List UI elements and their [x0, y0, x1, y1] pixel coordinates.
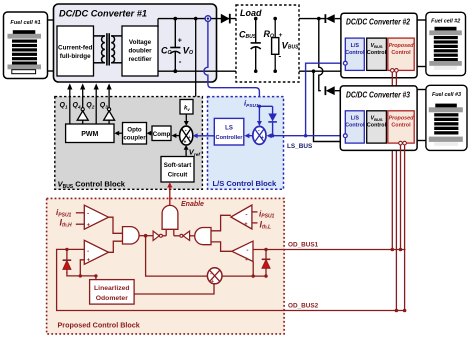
svg-text:Control: Control	[367, 123, 387, 129]
AND gate G2 (left-facing)	[195, 228, 211, 245]
Vbus control sub-block U3	[367, 111, 387, 143]
arrow comp to opto	[147, 131, 152, 136]
transformer T1	[94, 33, 123, 65]
arrow iPSU1 into summing junction X2	[257, 105, 262, 126]
L/S control sub-block U3	[343, 111, 364, 143]
summing junction X1	[180, 126, 193, 145]
wire LS_BUS	[273, 135, 344, 137]
diode D5 right (red)	[262, 250, 271, 277]
svg-text:Opto: Opto	[127, 127, 142, 134]
wire OD_BUS1	[253, 249, 406, 251]
svg-text:coupler: coupler	[123, 135, 146, 142]
diode D3 converter 3 output	[325, 86, 340, 95]
linearized odometer block	[90, 280, 135, 305]
wire odometer out to X3	[134, 284, 214, 294]
arrow X1 to comp	[171, 133, 179, 138]
wire fuel cell FC1 to converter 1 lower	[48, 70, 54, 72]
wire G1 node down to multiplier	[146, 236, 208, 276]
node OD_BUS1 diode	[264, 248, 267, 251]
wire odometer input	[95, 276, 97, 280]
svg-text:Control: Control	[345, 123, 365, 129]
gain block kv	[180, 100, 193, 115]
node LS bus diode junction	[271, 134, 274, 137]
diode D2 converter 2 output	[325, 14, 341, 23]
svg-text:-: -	[278, 52, 281, 61]
node lower-left comparator minus	[65, 248, 68, 251]
svg-text:+: +	[279, 32, 283, 39]
svg-text:-: -	[179, 57, 182, 66]
fuel cell FC3	[417, 85, 467, 150]
wire blue current sense down with hop	[204, 21, 260, 105]
wire enable G3 to soft-start	[167, 182, 172, 205]
svg-text:Odometer: Odometer	[96, 295, 128, 302]
node diode D5 bottom	[264, 274, 267, 277]
node OD_BUS2 junction U3	[403, 309, 407, 313]
arrow kv to X1	[184, 114, 189, 126]
svg-text:-: -	[87, 210, 89, 217]
soft-start circuit block	[161, 157, 194, 183]
fuel cell FC1	[4, 12, 48, 79]
diode D4 (blue) to LS bus	[259, 106, 277, 135]
wire A2 out to AND1	[109, 241, 123, 252]
capacitor Cbus	[239, 17, 261, 73]
LS controller block	[214, 118, 244, 145]
svg-text:-: -	[245, 212, 247, 219]
svg-text:kv: kv	[184, 106, 190, 112]
wire converter 3 return	[314, 71, 341, 141]
node OD_BUS1 junction U3	[399, 248, 403, 252]
wire A3 out to G2	[211, 215, 231, 231]
svg-text:+: +	[188, 135, 191, 141]
svg-text:OD_BUS1: OD_BUS1	[288, 242, 319, 249]
svg-text:Load: Load	[240, 8, 262, 18]
wire G1 output	[139, 235, 153, 237]
svg-text:VBUS: VBUS	[370, 116, 382, 122]
svg-text:+: +	[178, 38, 182, 45]
svg-text:-: -	[87, 248, 89, 255]
node odometer input	[94, 274, 97, 277]
node G1 output	[144, 234, 148, 238]
arrow LS controller to X1 (blue)	[193, 133, 215, 138]
arrow opto to PWM	[114, 131, 122, 136]
wire fuel cell FC1 to converter 1	[48, 19, 54, 21]
wire top rail converter 1 to load	[158, 18, 325, 20]
multiplier X3	[207, 268, 222, 285]
capacitor Co	[161, 17, 193, 73]
svg-text:Voltage: Voltage	[129, 39, 152, 46]
svg-text:-: -	[185, 128, 187, 134]
node multiplier out stub	[252, 274, 255, 277]
svg-text:-: -	[246, 247, 248, 254]
current-fed full-bridge block	[57, 26, 94, 76]
wire vertical to diode D3 with hop over bottom rail	[319, 19, 323, 91]
svg-text:L/S Control Block: L/S Control Block	[213, 179, 277, 188]
Vbus control block	[55, 97, 203, 191]
wire rectifier top stub	[157, 19, 159, 27]
wire G3 left input stub	[165, 229, 167, 236]
svg-text:Fuel cell #3: Fuel cell #3	[432, 92, 461, 98]
svg-text:Control: Control	[391, 123, 411, 129]
wire node to OD_BUS2	[57, 249, 406, 310]
svg-text:Soft-start: Soft-start	[164, 162, 192, 169]
comparator Comp block	[152, 126, 171, 141]
diode D6 left (red)	[63, 249, 72, 273]
svg-text:Circuit: Circuit	[168, 172, 188, 179]
gate drive wire Q3 with inverter	[104, 83, 115, 124]
wire bottom rail	[158, 70, 341, 72]
svg-text:Control: Control	[391, 50, 411, 56]
svg-text:+: +	[184, 140, 187, 146]
svg-text:Current-fed: Current-fed	[58, 45, 92, 52]
node A2 plus stub	[79, 274, 82, 277]
svg-text:Proposed: Proposed	[389, 43, 415, 49]
opto coupler block	[123, 123, 147, 145]
wire A2 plus input	[80, 260, 84, 276]
Proposed control block	[47, 198, 285, 334]
node top rail to converter 3 feed	[317, 17, 321, 21]
node LS bus branch to converter 2	[304, 134, 307, 137]
svg-text:rectifier: rectifier	[128, 56, 152, 63]
resistor Ro	[264, 17, 300, 73]
svg-text:L/S: L/S	[351, 116, 360, 122]
wire U3 OD outputs down	[400, 145, 402, 250]
svg-text:Control: Control	[367, 50, 387, 56]
svg-text:Control: Control	[345, 50, 365, 56]
node OD_BUS2 junction U2	[395, 309, 399, 313]
proposed control sub-block U3	[388, 111, 414, 145]
wire A1 out to AND1	[109, 217, 123, 233]
arrow X2 to LS controller	[244, 133, 252, 138]
svg-text:-: -	[210, 271, 212, 277]
node bottom rail to converter 3 return	[312, 69, 316, 73]
Vbus control sub-block U2	[367, 38, 387, 70]
svg-text:Proposed Control Block: Proposed Control Block	[58, 321, 140, 330]
inverter small right-pointing	[153, 231, 166, 240]
svg-text:Enable: Enable	[181, 201, 204, 208]
PWM block	[66, 124, 114, 143]
wire A4 plus input stub	[252, 262, 254, 277]
svg-text:doubler: doubler	[128, 48, 152, 55]
fuel cell FC2	[417, 12, 465, 75]
svg-text:OD_BUS2: OD_BUS2	[288, 303, 319, 310]
svg-text:Fuel cell #2: Fuel cell #2	[431, 19, 460, 25]
svg-text:VBUS: VBUS	[370, 43, 382, 49]
node kv sense on top rail	[194, 17, 198, 21]
AND gate G1	[122, 227, 139, 244]
inverter small left-pointing	[174, 231, 195, 240]
gate drive wire Q1	[67, 83, 72, 124]
svg-text:+: +	[261, 135, 264, 141]
svg-text:DC/DC Converter #2: DC/DC Converter #2	[346, 18, 410, 27]
comparator A3 upper-right	[231, 205, 258, 229]
svg-text:LS: LS	[225, 126, 233, 132]
comparator A1 upper-left	[76, 205, 109, 229]
DC/DC converter U2 box	[341, 13, 417, 78]
comparator A2 lower-left	[84, 240, 108, 264]
wire kv sense	[193, 19, 196, 107]
wire X3 out to right	[222, 275, 266, 277]
DC/DC converter U1 box	[54, 4, 217, 82]
wire diode D6 bottom line A	[67, 272, 96, 276]
svg-text:LS_BUS: LS_BUS	[287, 143, 313, 150]
Load block	[236, 5, 299, 82]
svg-text:Proposed: Proposed	[389, 116, 415, 122]
svg-text:PWM: PWM	[81, 131, 98, 138]
arrow LS bus into X2	[267, 133, 273, 138]
svg-text:full-birdge: full-birdge	[60, 53, 91, 60]
wire G3 right input stub	[173, 229, 175, 236]
diode D1 output converter 1	[221, 14, 230, 24]
comparator A4 lower-right	[232, 241, 253, 263]
wire U2 OD outputs down	[391, 72, 393, 249]
summing junction X2	[253, 126, 266, 144]
gate drive wire Q2	[94, 83, 99, 124]
svg-text:-: -	[258, 128, 260, 134]
DC/DC converter U3 box	[340, 86, 417, 150]
L/S control sub-block U2	[343, 38, 364, 70]
svg-text:Controller: Controller	[216, 135, 244, 141]
wire A4 out to G2	[211, 242, 232, 251]
L/S control block	[208, 97, 284, 190]
wire LS bus to converter 2 terminal	[306, 63, 344, 136]
svg-text:Linearlized: Linearlized	[94, 285, 130, 292]
proposed control sub-block U2	[388, 38, 414, 72]
current sensor node (blue) on top rail	[205, 16, 211, 22]
wire node to A2 minus	[67, 248, 84, 250]
wire Vref soft-start to X1	[184, 145, 201, 158]
svg-text:Comp: Comp	[153, 131, 171, 138]
svg-text:L/S: L/S	[351, 43, 360, 49]
svg-text:Fuel cell #1: Fuel cell #1	[10, 20, 40, 26]
voltage doubler rectifier block	[122, 26, 158, 76]
node iPSU1 branch	[258, 105, 261, 108]
svg-text:DC/DC Converter #3: DC/DC Converter #3	[346, 91, 410, 100]
node OD_BUS1 junction U2	[391, 248, 395, 252]
AND gate G3 vertical	[162, 205, 178, 229]
svg-text:DC/DC Converter #1: DC/DC Converter #1	[59, 9, 147, 20]
gate drive wire Q4 with inverter	[77, 83, 88, 124]
